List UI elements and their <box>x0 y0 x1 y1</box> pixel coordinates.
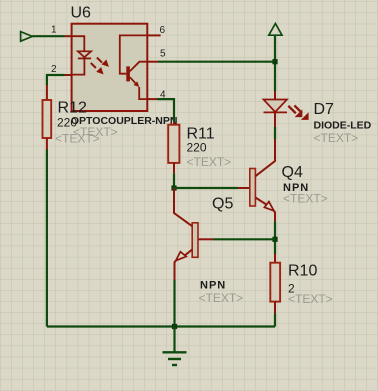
svg-text:Q5: Q5 <box>212 196 233 213</box>
pin 6 stub <box>147 34 160 36</box>
resistor R10 <box>270 263 280 302</box>
transistor Q4 <box>250 139 275 222</box>
junction ground rail/Q5 emitter <box>172 324 177 329</box>
wire pin 4 to R11 <box>157 99 174 122</box>
svg-text:1: 1 <box>51 25 57 36</box>
pin 4 stub <box>147 98 157 100</box>
Q4 property text <box>283 192 328 206</box>
D7 light arrow 1 <box>288 106 302 117</box>
svg-text:<TEXT>: <TEXT> <box>283 192 328 206</box>
pin 2 label <box>51 64 57 75</box>
diode D7 anode stub <box>274 91 276 100</box>
pin 6 label <box>160 25 166 36</box>
input terminal <box>21 32 33 42</box>
svg-text:220: 220 <box>57 116 77 130</box>
power terminal <box>269 24 282 36</box>
svg-text:DIODE-LED: DIODE-LED <box>314 120 372 132</box>
resistor R10 top lead <box>274 254 276 263</box>
junction R11/Q4 base/Q5 collector <box>171 185 176 190</box>
wire Q4 emitter down <box>274 222 276 255</box>
svg-text:D7: D7 <box>314 101 335 118</box>
U6 internal base path (pin 6) <box>120 35 148 73</box>
U6 internal emitter path (pin 4) <box>130 77 147 99</box>
R11 label <box>187 126 215 143</box>
svg-text:220: 220 <box>187 141 207 155</box>
pin 5 stub <box>147 61 158 63</box>
resistor R10 bottom lead <box>274 302 276 314</box>
U6 device name OPTOCOUPLER-NPN <box>71 115 178 127</box>
Q5 collector path <box>174 188 192 226</box>
wire R11 to node <box>173 173 175 188</box>
wire pin 5 to power node <box>158 61 275 63</box>
R10 property text <box>288 292 333 306</box>
svg-text:<TEXT>: <TEXT> <box>199 291 244 305</box>
U6 internal LED cathode path <box>72 58 85 74</box>
Q5 base pin <box>198 238 213 240</box>
svg-text:<TEXT>: <TEXT> <box>314 131 359 145</box>
svg-text:Q4: Q4 <box>282 164 303 181</box>
R12 property text <box>55 132 100 146</box>
pin 1 label <box>51 25 57 36</box>
resistor R12 top lead <box>46 85 48 100</box>
svg-text:R10: R10 <box>288 263 317 280</box>
wire R12 to ground rail <box>46 150 48 327</box>
pin 5 label <box>160 49 166 60</box>
resistor R11 bottom lead <box>173 163 175 173</box>
R11 property text <box>187 155 232 169</box>
D7 light arrow 2 <box>294 105 308 120</box>
U6 internal transistor bar <box>126 66 130 81</box>
U6 internal LED triangle <box>78 51 91 57</box>
junction power/pin5 <box>272 59 277 64</box>
wire Q5 emitter to ground rail <box>173 280 175 327</box>
junction Q4 emitter/Q5 base/R10 <box>272 237 277 242</box>
Q4 type NPN <box>283 182 309 194</box>
Q5 property text <box>199 291 244 305</box>
Q5 label <box>212 196 233 213</box>
U6 light arrow 1 <box>97 58 109 67</box>
D7 cathode stub <box>274 112 276 127</box>
U6 label <box>71 5 92 22</box>
U6 property text <box>73 125 118 139</box>
U6 internal collector path (pin 5) <box>130 62 147 71</box>
svg-text:<TEXT>: <TEXT> <box>55 132 100 146</box>
wire Q5 base to node <box>213 238 275 240</box>
svg-text:2: 2 <box>51 64 57 75</box>
wire R10 to ground rail <box>274 314 276 327</box>
transistor Q5 <box>175 223 199 280</box>
svg-text:U6: U6 <box>71 5 92 22</box>
R11 value 220 <box>187 141 207 155</box>
svg-text:<TEXT>: <TEXT> <box>187 155 232 169</box>
R12 value 220 <box>57 116 77 130</box>
pin 4 label <box>160 90 166 101</box>
resistor R11 <box>168 125 179 163</box>
svg-text:5: 5 <box>160 49 166 60</box>
U6 internal LED cathode bar <box>78 57 91 59</box>
D7 device name DIODE-LED <box>314 120 372 132</box>
pin 1 stub <box>65 35 72 37</box>
U6 light arrow 2 <box>91 63 104 75</box>
wire ground rail bottom <box>47 325 275 327</box>
wire node to Q4 base <box>174 187 238 189</box>
resistor R12 bottom lead <box>46 138 48 150</box>
resistor R11 top lead <box>173 122 175 125</box>
U6 internal LED anode path <box>72 36 85 51</box>
wire power to D7 <box>274 35 276 91</box>
svg-text:R12: R12 <box>58 100 87 117</box>
svg-text:<TEXT>: <TEXT> <box>288 292 333 306</box>
wire node to U6 pin 2 <box>47 75 65 85</box>
Q5 type NPN <box>200 280 226 292</box>
diode D7 <box>264 100 288 113</box>
R12 label <box>58 100 87 117</box>
R10 label <box>288 263 317 280</box>
Q4 label <box>282 164 303 181</box>
resistor R12 <box>43 100 52 138</box>
svg-text:NPN: NPN <box>200 280 226 292</box>
wire input to U6 pin 1 <box>32 35 64 37</box>
optocoupler U6 body <box>72 24 148 111</box>
pin 2 stub <box>65 74 72 76</box>
Q4 base pin <box>238 187 250 189</box>
R10 value 2 <box>288 282 295 296</box>
D7 label <box>314 101 335 118</box>
ground <box>163 327 187 366</box>
svg-text:6: 6 <box>160 25 166 36</box>
wire D7 to Q4 collector <box>274 127 276 139</box>
D7 property text <box>314 131 359 145</box>
